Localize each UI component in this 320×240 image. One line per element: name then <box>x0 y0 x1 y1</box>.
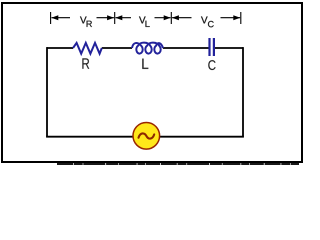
glyph VR-V <box>80 17 87 24</box>
wire between resistor and inductor <box>102 47 132 49</box>
glyph L <box>142 59 148 69</box>
capacitor C <box>208 38 210 56</box>
glyph VL-V <box>139 17 146 24</box>
VL left arrow <box>116 17 132 19</box>
wire capacitor to top-right corner <box>215 47 243 49</box>
inductor L <box>132 43 163 54</box>
wire right side <box>242 47 244 137</box>
dimension tick 4 <box>240 12 242 24</box>
border frame <box>2 3 302 162</box>
wire left side <box>46 47 48 137</box>
wire bottom <box>46 136 244 138</box>
bottom cropped text row <box>57 163 299 165</box>
VR right arrow <box>97 17 114 19</box>
glyph R <box>82 58 89 68</box>
VC left arrow <box>172 17 191 19</box>
VR left arrow <box>52 17 71 19</box>
dimension tick 1 <box>50 12 52 24</box>
dimension tick 3 <box>170 12 172 24</box>
resistor R <box>73 43 102 54</box>
VL right arrow <box>155 17 171 19</box>
wire between inductor and capacitor <box>163 47 209 49</box>
AC source <box>133 123 160 150</box>
glyph VL-sub <box>145 21 149 27</box>
wire top-left segment <box>47 47 73 49</box>
dimension tick 2 <box>114 12 116 24</box>
VC right arrow <box>221 17 241 19</box>
glyph C <box>208 60 215 70</box>
glyph VC-V <box>201 17 208 24</box>
glyph VR-sub <box>87 21 92 27</box>
glyph VC-sub <box>208 21 214 27</box>
